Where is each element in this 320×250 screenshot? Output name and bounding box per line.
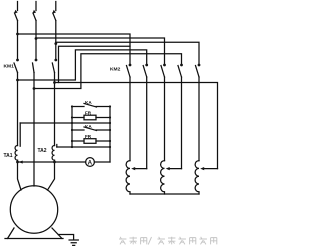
svg-text:TA2: TA2: [38, 148, 47, 154]
svg-text:KA: KA: [85, 100, 92, 105]
svg-text:TA1: TA1: [4, 153, 13, 159]
svg-text:A: A: [88, 159, 93, 166]
svg-text:FR: FR: [85, 134, 92, 139]
svg-text:FR: FR: [85, 111, 92, 116]
svg-text:KM1: KM1: [4, 64, 15, 70]
svg-text:KM2: KM2: [110, 66, 121, 72]
svg-text:KA: KA: [85, 124, 92, 129]
